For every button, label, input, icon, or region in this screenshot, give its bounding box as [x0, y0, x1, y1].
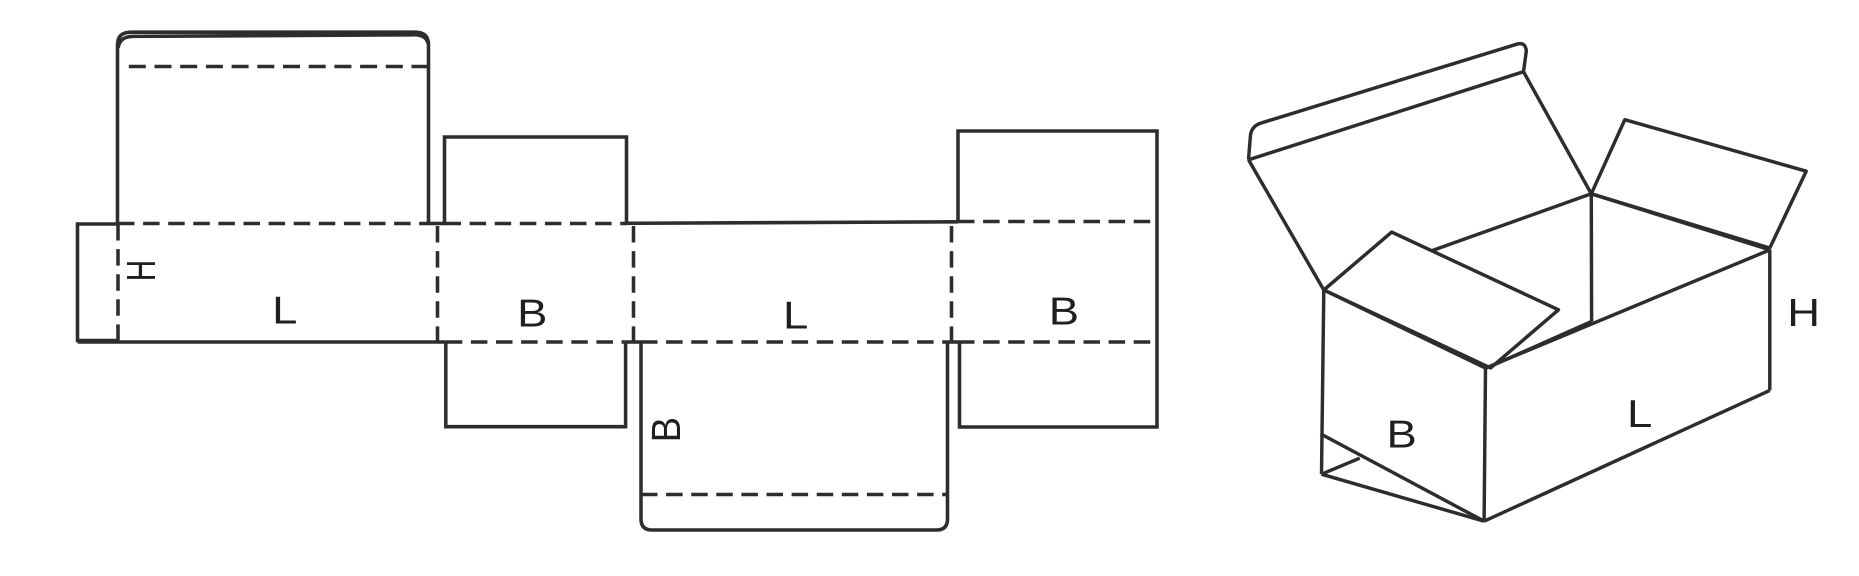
B1 bottom flap — [446, 342, 626, 427]
band bottom edge: dashed over big bottom flap — [641, 340, 948, 344]
svg-text:B: B — [1049, 290, 1079, 333]
big bottom flap tuck crease (dashed) — [641, 493, 948, 497]
fold line L2/B2 (dashed vertical) — [950, 226, 954, 342]
big lid left edge — [1249, 160, 1324, 290]
tall flap inner top cut line — [118, 35, 428, 48]
box right vertical edge — [1768, 250, 1771, 391]
rim front-right edge — [1486, 250, 1770, 368]
big bottom flap below L2 — [641, 342, 948, 530]
band bottom edge: dashed over B2 bottom flap — [958, 340, 1157, 344]
svg-text:L: L — [1627, 392, 1652, 435]
big lid crease line — [1249, 72, 1524, 160]
open bottom flap edge — [1321, 434, 1485, 521]
rim front-left edge — [1324, 290, 1486, 368]
B2 right outer edge through band — [1155, 222, 1159, 343]
band bottom edge: dashed over B1 bottom flap — [446, 340, 626, 344]
svg-text:H: H — [118, 260, 164, 281]
tall flap tuck crease (dashed) — [126, 65, 429, 69]
svg-text:L: L — [783, 294, 808, 337]
box left vertical edge — [1322, 290, 1324, 474]
back-right top flap — [1591, 120, 1806, 248]
svg-text:B: B — [644, 417, 689, 442]
big lid tuck strip outline — [1249, 44, 1527, 160]
fold line B1/L2 (dashed vertical) — [632, 226, 636, 342]
fold line L1/B1 (dashed vertical) — [436, 226, 440, 342]
band top edge: dashed under tall flap — [118, 222, 429, 226]
band bottom edge: solid bit — [626, 340, 641, 344]
left glue flap fold (dashed vertical) — [116, 224, 120, 341]
box bottom edge right — [1484, 390, 1770, 521]
svg-text:B: B — [517, 292, 547, 335]
B1 top panel — [445, 137, 627, 224]
svg-text:H: H — [1787, 291, 1820, 334]
rim back-left edge (partially hidden) — [1432, 194, 1592, 251]
svg-text:B: B — [1386, 413, 1416, 456]
band top edge: dashed under B1 top panel — [445, 222, 627, 226]
interior bottom-left edge — [1489, 322, 1592, 368]
box bottom edge left — [1322, 474, 1485, 521]
box front vertical edge — [1484, 368, 1485, 521]
rim back-right edge — [1591, 194, 1770, 250]
band top edge: solid cut over L2 — [627, 222, 959, 224]
B2 top panel — [958, 131, 1157, 222]
band top edge: solid bit between tall flap and B1 top panel — [429, 222, 445, 226]
band bottom edge: solid bit right — [948, 340, 959, 344]
band top edge: dashed under B2 top panel — [958, 220, 1157, 224]
big lid right edge — [1524, 72, 1592, 194]
left glue flap outline — [78, 224, 119, 341]
open bottom flap fold stub — [1322, 458, 1360, 474]
band bottom edge: solid under flap+L1 — [78, 340, 446, 344]
svg-text:L: L — [272, 289, 297, 332]
B2 bottom flap — [960, 342, 1158, 427]
interior back corner vertical — [1590, 194, 1594, 322]
panel: tall top flap over L1 — [118, 32, 429, 223]
small front-left top flap — [1324, 232, 1559, 368]
